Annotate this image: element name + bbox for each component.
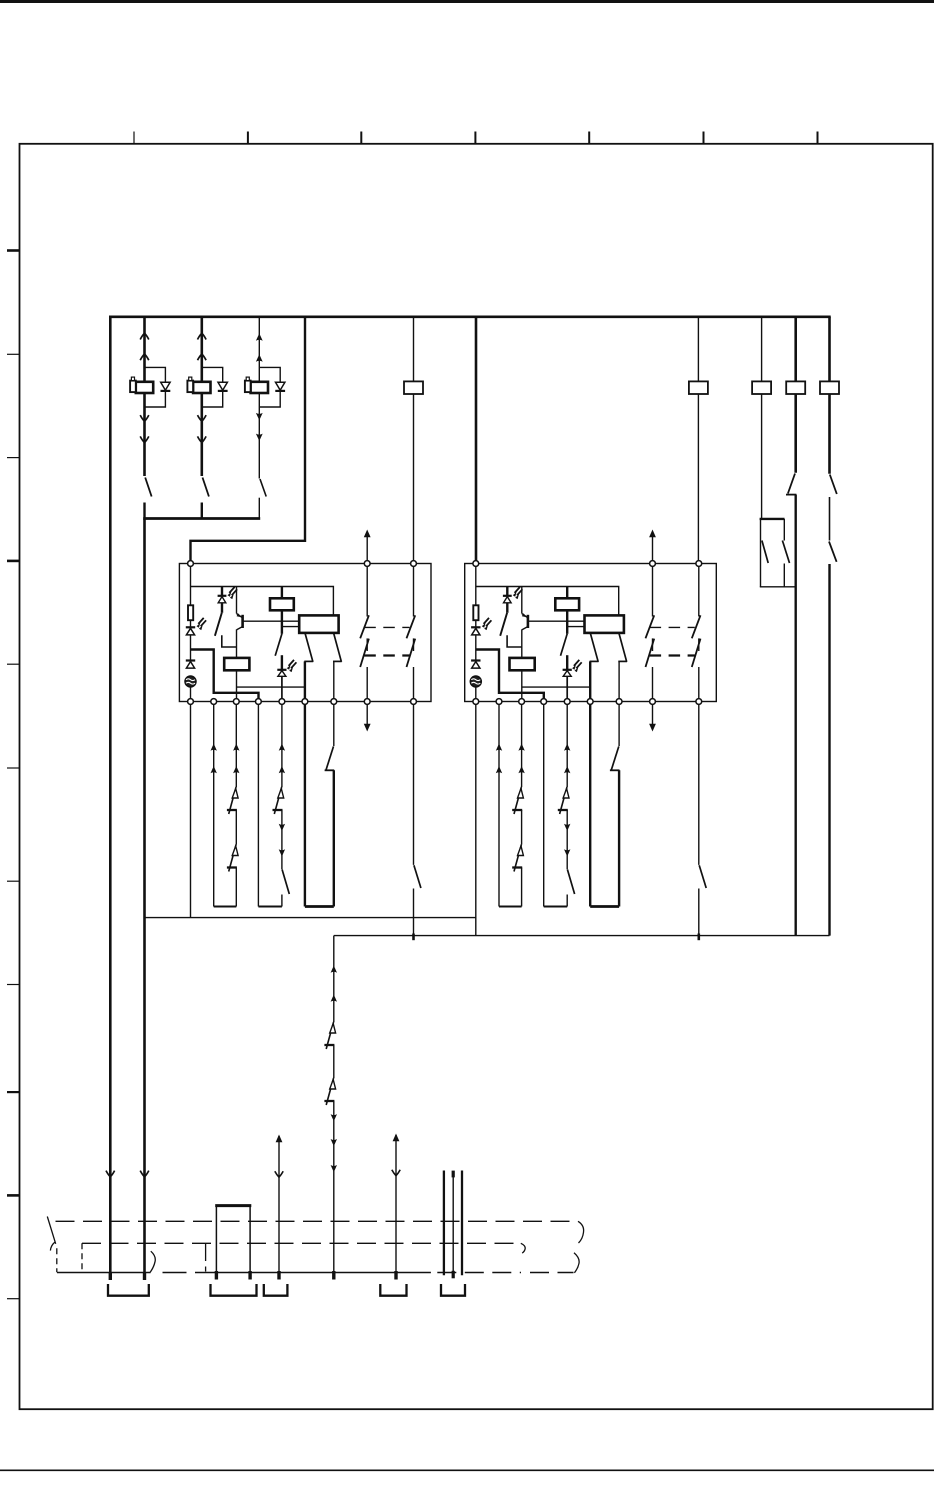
bottom rule line (0, 1469, 934, 1471)
A channel 3 blade tick (325, 769, 335, 771)
switch contact S5a (830, 475, 837, 495)
A junction tick at bottom bus (412, 934, 415, 941)
riser T4 arrows up (331, 966, 337, 973)
fuse F1 (404, 381, 423, 394)
drain wire terminals (452, 1171, 455, 1279)
riser T4 cable terminal (332, 1271, 335, 1280)
A channel 3 right leg lower (333, 770, 335, 906)
B LED optical arrows 2 (513, 587, 523, 599)
B channel 1 right leg upper (521, 704, 523, 787)
T2 arrowheads (275, 1135, 283, 1178)
suppression diode V at x=165.4 (161, 382, 171, 391)
switch contact S5b (829, 542, 837, 562)
A connector break 1b (227, 845, 238, 872)
wire coil 2 feeder (201, 317, 204, 476)
relay contact block frame top (760, 518, 785, 520)
relay module A enclosure (179, 564, 431, 702)
switch contact S4 (788, 474, 795, 494)
contact S4 fixed tick (786, 494, 796, 496)
arrow pair on coil 2 feeder (198, 333, 207, 339)
B LED optical arrows 3 (572, 660, 582, 672)
B diode V2 (471, 661, 480, 669)
branch loop wire at x=144.5 (145, 367, 166, 407)
B electronics block U1 (585, 615, 624, 633)
connector break T4b (324, 1078, 335, 1105)
A top terminals (188, 561, 417, 567)
contact block right wire upper (783, 519, 785, 541)
coil connector plug at x=144.5 (130, 377, 136, 392)
B lamp H1 (471, 676, 482, 687)
B channel 2 right leg upper (566, 704, 568, 787)
B channel 1 left leg (498, 704, 500, 906)
A channel 3 left leg (304, 704, 306, 906)
A contact chain right blade 1 (407, 615, 416, 638)
T3 arrowheads (392, 1134, 400, 1176)
B gang link dashed upper (650, 626, 695, 628)
connector group bracket 4 (380, 1284, 406, 1296)
arrow pair on coil 3 feeder (256, 333, 263, 340)
B transistor Q1 (522, 587, 528, 658)
wire S4 to bottom bus (795, 495, 797, 936)
A switched output wire lower (413, 889, 415, 936)
wire fuse F3 upper lead (761, 317, 763, 382)
A lamp H1 (185, 676, 196, 687)
A U1 contact blade b (333, 633, 342, 662)
A switch blade from V3 (215, 613, 222, 636)
switch contact S1 (145, 478, 151, 497)
A wire R1 leads (190, 587, 192, 628)
arrow on drop x=144.5 (140, 1171, 149, 1177)
harness bottom line segments (57, 1272, 574, 1274)
B gang link dashed lower (650, 654, 695, 656)
wire between S5a and S5b (829, 497, 831, 541)
B contact chain right mid wire (698, 638, 700, 651)
B U1 contact blade a (590, 633, 599, 662)
A contact chain right lower wire (413, 667, 415, 699)
wire center feed to relay module B (475, 316, 478, 562)
A contact chain left upper wire (366, 566, 368, 617)
node 15 switched bus (143, 517, 260, 520)
switch contact S3 (260, 479, 266, 497)
contact block right wire lower (783, 564, 785, 587)
wire fuse F4 upper lead (794, 317, 797, 382)
B wire below K1 (566, 610, 568, 634)
A channel 1 foot (214, 906, 237, 908)
B contact chain left lower wire (652, 667, 654, 699)
B contact chain left blade 2 (646, 639, 655, 667)
wire module A terminal 1 drop (190, 704, 192, 917)
A relay coil K1 (270, 598, 294, 610)
housing notch dashed (205, 1243, 207, 1271)
harness outline upper cut wave (578, 1221, 584, 1243)
A relay coil K2 (224, 658, 249, 670)
relay module B enclosure (465, 564, 717, 702)
A electronics block U1 (299, 615, 338, 633)
A channel 3 switch blade (326, 746, 334, 770)
arrow pair below coil 2 (198, 415, 207, 421)
wire harness riser T4 lower (333, 1101, 335, 1273)
B channel 3 left leg (589, 704, 591, 906)
A output arrow above terminal 2 (364, 530, 371, 561)
B wire blade foot to emitter line (507, 635, 522, 647)
node 30 supply bus (109, 315, 831, 318)
wire left supply drop (109, 316, 112, 1281)
A channel 2 arrows down (279, 824, 285, 831)
shielded pair right conductor (461, 1171, 463, 1276)
A LED optical arrows 2 (228, 587, 238, 599)
A wire V1 to junction (190, 635, 192, 661)
contact blade pair in block (762, 541, 790, 564)
B channel 3 right leg lower (618, 770, 620, 906)
A switched output wire upper (413, 704, 415, 865)
B thick jumper to terminal 4 (476, 650, 544, 699)
connector group bracket 3 (264, 1284, 288, 1296)
A contact chain left lower wire (366, 667, 368, 699)
A contact chain left mid wire (366, 638, 368, 651)
A channel 1 right leg arrows (233, 744, 239, 751)
A diode V3 branch (218, 587, 227, 613)
A channel 2 foot (258, 906, 282, 908)
B relay coil K2 (510, 658, 535, 670)
node 31 bus lower (334, 935, 830, 937)
connector group bracket 5 (441, 1284, 465, 1296)
harness outline upper dashed (56, 1220, 578, 1222)
A wire terminal 1 to rail (190, 566, 192, 587)
A channel 1 left leg (213, 704, 215, 906)
wire fuse F1 to module A (413, 394, 415, 561)
harness left end dashed drop 2 (81, 1243, 83, 1272)
housing cable terminals (216, 1271, 250, 1280)
B parallel link wires (567, 626, 584, 628)
harness outline middle dashed (82, 1242, 521, 1244)
harness outline left cut wave (47, 1217, 55, 1251)
shielded pair left conductor (443, 1171, 445, 1276)
A diode V2 (186, 661, 195, 669)
fuse F2 (689, 381, 708, 394)
B channel 1 foot (499, 906, 522, 908)
connector group bracket 2 (211, 1284, 257, 1296)
B switched output blade (699, 865, 706, 888)
A switched output blade (414, 865, 421, 888)
fuse F4 (786, 381, 805, 394)
B connector break 1b (512, 845, 523, 872)
B channel 2 switch blade (567, 870, 574, 895)
B channel 2 right leg arrows up (564, 744, 570, 751)
wire fused drop continues to bottom (143, 519, 146, 1281)
top edge grid tick marks (134, 132, 818, 144)
B diode V3 branch (503, 587, 512, 613)
T2 cable terminal (277, 1271, 280, 1280)
harness outline middle cut wave (521, 1243, 525, 1253)
branch loop wire at x=259.3 (259, 367, 280, 407)
B wire blade b to terminal 7 (618, 661, 620, 698)
wire fuse F4 lower lead (794, 394, 797, 473)
B base wire (529, 620, 585, 622)
wire bus drop to relay module A (191, 316, 306, 562)
B channel 2 foot (544, 906, 568, 908)
B LED diode V1 (471, 627, 480, 635)
arrow pair below coil 3 (256, 413, 263, 420)
A channel 1 right leg lower (235, 868, 237, 907)
coil connector plug at x=201.8 (187, 377, 193, 392)
B channel 2 arrows down (564, 824, 570, 831)
B wire lamp to terminal 1b (475, 687, 477, 699)
A base wire (244, 620, 300, 622)
solenoid coil K at x=201.8 (193, 382, 210, 393)
A gang link dashed lower (364, 654, 409, 656)
coil connector plug at x=259.3 (245, 377, 251, 392)
A channel 2 right leg mid (281, 810, 283, 869)
branch loop wire at x=201.8 (202, 367, 223, 407)
B relay coil K1 (555, 598, 579, 610)
harness bottom right cut wave (574, 1253, 579, 1273)
A channel 2 left leg (257, 704, 259, 906)
A U1 contact blade a (304, 633, 313, 662)
wire harness riser T4 mid (333, 1045, 335, 1078)
wire switch S1 lower stub (143, 503, 145, 519)
A LED optical arrows 1 (197, 618, 207, 630)
A channel 1 right leg upper (235, 704, 237, 787)
fuse F3 (752, 381, 771, 394)
B channel 1 right leg mid (521, 810, 523, 845)
connector break T4a (324, 1022, 335, 1049)
B switch blade from V3 (500, 613, 507, 636)
connector housing on harness (215, 1206, 251, 1273)
A channel 2 right leg lower (281, 895, 283, 907)
connector group bracket 1 (108, 1284, 149, 1296)
B channel 3 right leg upper (618, 704, 620, 746)
B wire K1 feeder (566, 587, 568, 599)
riser T4 arrows down (331, 1114, 337, 1121)
suppression diode V at x=280.2 (275, 382, 285, 391)
B channel 3 foot (590, 905, 619, 908)
B wire blade a to terminal 6 (589, 661, 591, 698)
A contact chain left blade 1 (360, 615, 369, 638)
A K1 contact blade (275, 634, 282, 656)
A wire lamp to terminal 1b (190, 687, 192, 699)
B contact chain right lower wire (698, 667, 700, 699)
A contact chain left blade 2 (360, 639, 369, 667)
B bottom terminals (473, 699, 702, 705)
A channel 1 left leg arrows (211, 744, 217, 751)
B wire V1 to junction (475, 635, 477, 661)
contact block left wire (760, 519, 762, 587)
A LED diode V4 (277, 655, 286, 698)
wire module B terminal 1 drop (475, 704, 477, 935)
wire switch S3 lower stub (258, 498, 260, 519)
wire fuse F5 lower lead (828, 394, 831, 474)
A wire below K1 (281, 610, 283, 634)
A wire blade foot to emitter line (222, 635, 237, 647)
A connector break 1a (227, 787, 238, 814)
B channel 2 left leg (543, 704, 545, 906)
B contact chain right upper wire (698, 566, 700, 617)
B contact chain left upper wire (652, 566, 654, 617)
B LED diode V4 (563, 655, 572, 698)
wire fuse F1 upper lead (413, 317, 415, 382)
A gang link dashed upper (364, 626, 409, 628)
B contact chain right blade 1 (692, 615, 701, 638)
wire fuse F3 lower lead (761, 394, 763, 519)
wire S5b to bottom bus (828, 564, 830, 936)
contact block bottom wire (760, 586, 796, 588)
wire fuse F5 upper lead (828, 317, 831, 382)
arrow on left supply drop (106, 1171, 115, 1177)
wire fused supply drop (143, 316, 146, 477)
B channel 2 right leg mid (566, 810, 568, 869)
T3 cable terminal (394, 1271, 397, 1280)
B output arrow below terminal 8 (649, 705, 656, 732)
wire harness riser T4 upper (333, 936, 335, 1022)
B junction tick at bottom bus (697, 934, 700, 941)
wire switch S2 lower stub (201, 503, 203, 519)
A thick jumper to terminal 4 (191, 650, 259, 699)
B connector break 1a (512, 787, 523, 814)
A LED diode V1 (186, 627, 195, 635)
signal wire T2 double arrow (278, 1136, 280, 1273)
A contact chain right mid wire (413, 638, 415, 651)
B channel 1 left leg arrows (496, 744, 502, 751)
B connector break 2 (558, 787, 569, 814)
B top terminals (473, 561, 702, 567)
wire fuse F2 to module B (697, 394, 699, 561)
suppression diode V at x=222.70000000000002 (218, 382, 228, 391)
B wire K2 to terminal 3 (522, 670, 590, 698)
A wire K2 to terminal 3 (237, 670, 305, 698)
B switched output wire lower (698, 889, 700, 936)
fuse F5 (820, 381, 839, 394)
switch contact S2 (203, 478, 209, 497)
B internal supply rail (476, 587, 619, 616)
A internal supply rail (191, 587, 334, 616)
B K1 contact blade (561, 634, 568, 656)
B output arrow above terminal 2 (649, 530, 656, 561)
B contact chain left blade 1 (646, 615, 655, 638)
A resistor R1 (188, 605, 193, 620)
arrow pair on fused drop (140, 333, 149, 339)
A contact chain right upper wire (413, 566, 415, 617)
A channel 2 right leg arrows up (279, 744, 285, 751)
node 31 bus upper (145, 917, 477, 919)
B LED optical arrows 1 (482, 618, 492, 630)
wire coil 3 feeder (258, 317, 260, 479)
A channel 1 right leg mid (235, 810, 237, 845)
B channel 2 right leg lower (566, 895, 568, 907)
B U1 contact blade b (618, 633, 627, 662)
A wire blade a to terminal 6 (304, 661, 306, 698)
A channel 3 right leg upper (333, 704, 335, 746)
A channel 2 switch blade (282, 870, 289, 895)
B wire terminal 1 to rail (475, 566, 477, 587)
A wire blade b to terminal 7 (333, 661, 335, 698)
left edge grid tick marks (7, 251, 20, 1299)
B contact chain right blade 2 (692, 639, 701, 667)
A bottom terminals (188, 699, 417, 705)
B wire R1 leads (475, 587, 477, 628)
A transistor Q1 (237, 587, 243, 658)
B channel 1 right leg arrows (518, 744, 524, 751)
shield drain wire (452, 1171, 454, 1273)
solenoid coil K at x=144.5 (136, 382, 153, 393)
B resistor R1 (473, 605, 478, 620)
B switched output wire upper (698, 704, 700, 865)
A channel 2 right leg upper (281, 704, 283, 787)
supply drops cable entry ticks (110, 1273, 144, 1280)
A connector break 2 (273, 787, 284, 814)
B contact chain left mid wire (652, 638, 654, 651)
harness bottom cut wave mid (150, 1251, 155, 1272)
A parallel link wires (282, 626, 299, 628)
wire fuse F2 upper lead (697, 317, 699, 382)
harness left end dashed drop 1 (56, 1248, 58, 1272)
A contact chain right blade 2 (407, 639, 416, 667)
B channel 3 switch blade (611, 746, 619, 770)
arrow pair below coil 1 (140, 415, 149, 421)
A channel 3 foot (305, 905, 334, 908)
A LED optical arrows 3 (287, 660, 297, 672)
B channel 1 right leg lower (521, 868, 523, 907)
A output arrow below terminal 8 (364, 705, 371, 732)
solenoid coil K at x=259.3 (251, 382, 268, 393)
A wire K1 feeder (281, 587, 283, 599)
top black bar (0, 0, 934, 3)
B channel 3 blade tick (610, 769, 620, 771)
signal wire T3 double arrow (395, 1135, 397, 1273)
